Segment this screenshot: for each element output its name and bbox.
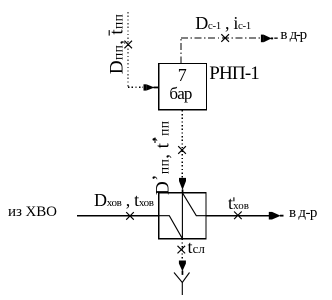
svg-text:д-р: д-р [298, 205, 317, 221]
wire: water line from HVO to heater [77, 215, 159, 217]
fitting X on water inlet line [126, 212, 134, 220]
svg-text:Dпп, tпп: Dпп, tпп [107, 14, 128, 74]
wire: dotted drain line below heater [181, 239, 183, 260]
wire: dash-dot horizontal run to deaerator [181, 37, 260, 39]
svg-text:в: в [280, 27, 287, 43]
fitting X on steam supply line [124, 41, 132, 49]
svg-text:tхов: tхов [228, 193, 249, 213]
wire: dotted steam line RNP-1 bottom to heater [181, 110, 183, 177]
svg-text:Dхов , tхов: Dхов , tхов [94, 190, 154, 210]
wire: steam supply dotted line (vertical, top-left) [127, 12, 129, 87]
heater (surface heat exchanger) box [159, 193, 206, 239]
fitting X on water outlet line [234, 212, 242, 220]
svg-text:7: 7 [178, 65, 187, 85]
wire: steam supply dotted elbow toward RNP-1 inlet [128, 86, 143, 88]
svg-text:бар: бар [169, 84, 192, 103]
fitting X on dash-dot line [221, 34, 229, 42]
svg-text:D’пп, t’пп: D’пп, t’пп [149, 121, 174, 195]
svg-text:Dс-1 , iс-1: Dс-1 , iс-1 [195, 13, 251, 33]
arrow into drain funnel [179, 261, 186, 275]
svg-text:tсл: tсл [188, 237, 206, 257]
arrow to deaerator (bottom right) [269, 212, 284, 220]
wire: water outlet line to deaerator [206, 215, 269, 217]
arrow to deaerator (top) [261, 35, 278, 43]
svg-text:РНП-1: РНП-1 [209, 63, 259, 84]
arrow into RNP-1 inlet [144, 84, 159, 90]
label D'pp, t-bar'-pp (rotated) [149, 121, 174, 195]
wire: dash-dot steam line from RNP-1 top to deaerator [180, 38, 182, 64]
valve unit RNP-1 box [159, 64, 207, 110]
fitting X on middle dotted line [178, 146, 186, 154]
svg-text:д-р: д-р [290, 27, 308, 43]
drain funnel symbol [174, 273, 190, 296]
heater internal zigzag [159, 193, 206, 239]
svg-text:из ХВО: из ХВО [8, 204, 57, 220]
label Dpp, t-bar-pp (rotated) [107, 14, 128, 74]
arrow into heater top [179, 178, 186, 193]
fitting X on drain line [178, 246, 186, 254]
svg-text:в: в [289, 205, 296, 221]
